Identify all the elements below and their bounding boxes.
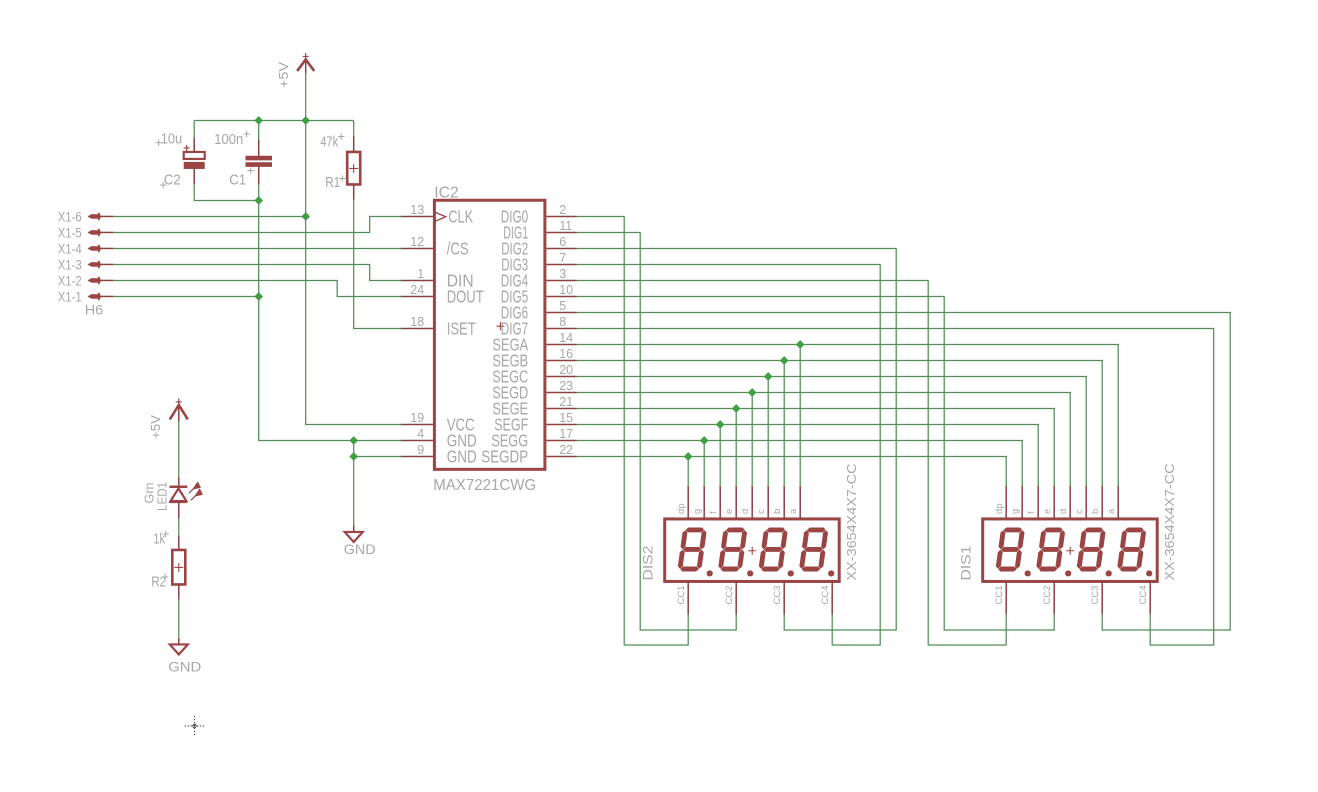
svg-text:CC3: CC3 <box>772 585 783 604</box>
wire SEGD horizontal to DIS1 pin <box>577 392 1071 486</box>
IC2 pin 9 GND (left) <box>401 443 477 467</box>
svg-text:X1-4: X1-4 <box>58 240 82 256</box>
R1 name label <box>325 175 345 191</box>
IC2 origin cross <box>497 322 505 330</box>
wire SEGA horizontal to DIS1 pin <box>577 344 1119 486</box>
IC2 pin 10 DIG5 (right) <box>501 283 577 307</box>
resistor R2 (1k) <box>172 535 185 599</box>
svg-text:X1-3: X1-3 <box>58 256 82 272</box>
svg-text:g: g <box>692 509 703 514</box>
svg-text:+5V: +5V <box>148 415 163 439</box>
connector pin X1-2 <box>58 272 114 288</box>
DIS1 pin b (top) <box>1090 486 1102 520</box>
svg-text:X1-2: X1-2 <box>58 272 82 288</box>
IC2 pin 24 DOUT (left) <box>401 283 484 307</box>
connector pin X1-4 <box>58 240 114 256</box>
svg-text:13: 13 <box>410 203 424 217</box>
ground symbol GND (LED branch) <box>170 638 188 655</box>
IC2 pin 8 DIG7 (right) <box>501 315 577 339</box>
wire R1 top lead <box>353 120 355 136</box>
DIS2 pin d (top) <box>740 486 752 520</box>
junction GND pin4 wire / GND stem <box>350 437 358 445</box>
wire GND vertical x258 down to GND pin 4 <box>259 166 401 440</box>
svg-text:CC4: CC4 <box>820 585 831 604</box>
svg-text:CC4: CC4 <box>1138 585 1149 604</box>
IC2 pin 12 /CS (left) <box>401 235 469 259</box>
wire SEGG horizontal to DIS1 pin <box>577 440 1023 486</box>
svg-text:H6: H6 <box>85 301 104 317</box>
DIS1 pin CC3 (bottom) <box>1090 581 1102 615</box>
wire X1-1 to GND vertical <box>114 295 259 297</box>
wire GND pin 9 stub <box>354 455 401 457</box>
svg-text:f: f <box>708 511 719 514</box>
wire GND: C2 bottom to C1 bottom <box>194 184 259 201</box>
svg-text:CC2: CC2 <box>1042 585 1053 604</box>
svg-text:2: 2 <box>559 203 566 217</box>
ground symbol GND (below IC) <box>345 525 363 542</box>
DIS2 pin CC1 (bottom) <box>676 581 688 615</box>
7-segment display DIS1 (XX-3654X4X7-CC) box <box>983 519 1157 582</box>
junction SEGE tee at x736 <box>732 405 740 413</box>
wire SEGC branch down to DIS2 pin <box>767 376 769 486</box>
junction +5V rail / vertical <box>302 117 310 125</box>
junction SEGDP tee at x688 <box>684 453 692 461</box>
DIS1 pin a (top) <box>1106 486 1118 520</box>
capacitor C2 (10u polarized) <box>184 137 205 184</box>
DIS1 pin e (top) <box>1042 486 1054 520</box>
LED LED1 (Grn) <box>169 477 202 518</box>
svg-text:10u: 10u <box>161 131 183 147</box>
svg-text:21: 21 <box>559 395 573 409</box>
junction SEGC tee at x768 <box>764 373 772 381</box>
junction SEGA tee at x800 <box>796 341 804 349</box>
IC2 pin 4 GND (left) <box>401 427 477 451</box>
+5V supply symbol P+1 (top) <box>297 59 314 70</box>
wire X1-5 to CLK pin 13 <box>114 216 401 232</box>
svg-text:CC1: CC1 <box>676 585 687 604</box>
svg-text:X1-5: X1-5 <box>58 224 82 240</box>
svg-text:7: 7 <box>559 251 566 265</box>
svg-text:6: 6 <box>559 235 566 249</box>
wire X1-2 to DOUT pin 24 <box>114 280 401 296</box>
svg-text:GND: GND <box>447 447 477 467</box>
IC2 pin 19 VCC (left) <box>401 411 475 435</box>
svg-text:9: 9 <box>417 443 424 457</box>
wire C2 top lead <box>193 120 195 137</box>
svg-text:Grn: Grn <box>143 482 157 503</box>
DIS1 pin c (top) <box>1074 486 1086 520</box>
svg-text:14: 14 <box>559 331 573 345</box>
wire SEGB branch down to DIS2 pin <box>783 360 785 486</box>
svg-text:+5V: +5V <box>276 62 291 88</box>
DIS2 pin a (top) <box>788 486 800 520</box>
svg-text:8: 8 <box>559 315 566 329</box>
wire SEGDP horizontal to DIS1 pin <box>577 456 1007 486</box>
wire GND stem to GND symbol <box>353 440 355 531</box>
C1 name label <box>229 167 254 188</box>
DIS1 pin CC4 (bottom) <box>1138 581 1150 615</box>
C2 name label <box>160 172 181 188</box>
C2 value label 10u <box>156 131 183 147</box>
svg-text:17: 17 <box>559 427 573 441</box>
wire DIG3 to DIS2 CC4 <box>577 264 881 645</box>
svg-text:R1: R1 <box>325 175 340 191</box>
IC2 pin 23 SEGD (right) <box>492 379 576 403</box>
IC2 pin 16 SEGB (right) <box>492 347 576 371</box>
+5V supply symbol P+2 (LED branch) <box>170 405 188 420</box>
DIS2 pin CC4 (bottom) <box>820 581 832 615</box>
svg-text:SEGDP: SEGDP <box>481 447 528 467</box>
wire R2 to GND symbol <box>178 599 180 638</box>
junction GND vertical / X1-1 wire <box>255 293 263 301</box>
svg-text:GND: GND <box>168 659 201 674</box>
DIS1 pin g (top) <box>1010 486 1022 520</box>
svg-text:C1: C1 <box>229 172 246 188</box>
connector pin X1-1 <box>58 288 114 304</box>
svg-text:3: 3 <box>559 267 566 281</box>
svg-text:IC2: IC2 <box>434 184 459 201</box>
DIS2 pin e (top) <box>724 486 736 520</box>
wire DIG0 to DIS2 CC1 <box>577 216 689 645</box>
svg-text:dp: dp <box>994 503 1005 514</box>
wire X1-4 to /CS pin 12 <box>114 247 401 249</box>
DIS1 pin d (top) <box>1058 486 1070 520</box>
svg-text:23: 23 <box>559 379 573 393</box>
DIS2 pin g (top) <box>692 486 704 520</box>
wire +5V net: vertical x305 down to VCC pin 19 <box>306 72 401 424</box>
svg-text:b: b <box>1090 509 1101 514</box>
svg-text:d: d <box>740 509 751 514</box>
wire LED1 cathode to R2 <box>178 518 180 535</box>
IC2 pin 3 DIG4 (right) <box>501 267 577 291</box>
svg-text:19: 19 <box>410 411 424 425</box>
wire DIG1 to DIS2 CC2 <box>577 232 737 630</box>
svg-text:GND: GND <box>344 542 376 557</box>
IC2 pin 14 SEGA (right) <box>492 331 576 355</box>
svg-text:CC1: CC1 <box>994 585 1005 604</box>
svg-text:dp: dp <box>676 503 687 514</box>
svg-text:c: c <box>756 509 767 514</box>
IC2 pin 11 DIG1 (right) <box>503 219 576 243</box>
DIS2 pin CC3 (bottom) <box>772 581 784 615</box>
DIS1 pin f (top) <box>1026 486 1038 520</box>
wire SEGF horizontal to DIS1 pin <box>577 424 1039 486</box>
svg-text:LED1: LED1 <box>156 482 170 511</box>
IC2 pin 13 CLK (left) <box>401 203 473 227</box>
junction C1 bottom / GND <box>255 197 263 205</box>
wire SEGE branch down to DIS2 pin <box>735 408 737 486</box>
svg-text:DIS2: DIS2 <box>640 545 656 580</box>
svg-text:100n: 100n <box>214 132 243 148</box>
svg-text:X1-6: X1-6 <box>58 208 82 224</box>
svg-text:C2: C2 <box>164 172 181 188</box>
svg-text:16: 16 <box>559 347 573 361</box>
wire SEGE horizontal to DIS1 pin <box>577 408 1055 486</box>
wire +5V to LED1 anode <box>178 421 180 478</box>
IC2 pin 20 SEGC (right) <box>492 363 576 387</box>
R2 name label <box>151 574 168 591</box>
svg-text:d: d <box>1058 509 1069 514</box>
svg-text:c: c <box>1074 509 1085 514</box>
R1 value label 47k <box>320 133 344 150</box>
resistor R1 (47k) <box>347 136 360 199</box>
IC2 pin 17 SEGG (right) <box>491 427 576 451</box>
svg-text:g: g <box>1010 509 1021 514</box>
svg-text:24: 24 <box>410 283 424 297</box>
wire DIG6 to DIS1 CC3 <box>577 312 1231 630</box>
DIS1 pin dp (top) <box>994 486 1006 520</box>
capacitor C1 (100n) <box>246 139 273 184</box>
svg-text:XX-3654X4X7-CC: XX-3654X4X7-CC <box>1162 463 1177 580</box>
IC2 pin 1 DIN (left) <box>401 267 474 291</box>
junction +5V vertical / X1-6 wire <box>302 213 310 221</box>
wire SEGC horizontal to DIS1 pin <box>577 376 1087 486</box>
wire SEGF branch down to DIS2 pin <box>719 424 721 486</box>
IC2 pin 15 SEGF (right) <box>494 411 576 435</box>
DIS2 pin f (top) <box>708 486 720 520</box>
svg-text:a: a <box>788 508 799 514</box>
junction SEGF tee at x720 <box>716 421 724 429</box>
IC2 pin 21 SEGE (right) <box>492 395 576 419</box>
DIS2 digits 8.8.8.8 <box>677 527 834 576</box>
DIS2 pin c (top) <box>756 486 768 520</box>
connector pin X1-3 <box>58 256 114 272</box>
svg-text:e: e <box>1042 509 1053 514</box>
IC2 pin 22 SEGDP (right) <box>481 443 576 467</box>
svg-text:15: 15 <box>559 411 573 425</box>
svg-text:4: 4 <box>417 427 424 441</box>
svg-text:1: 1 <box>417 267 424 281</box>
DIS1 pin CC2 (bottom) <box>1042 581 1054 615</box>
junction SEGG tee at x704 <box>700 437 708 445</box>
wire SEGD branch down to DIS2 pin <box>751 392 753 486</box>
IC2 pin 6 DIG2 (right) <box>501 235 576 259</box>
svg-text:22: 22 <box>559 443 573 457</box>
wire DIG5 to DIS1 CC2 <box>577 296 1055 630</box>
wire SEGA branch down to DIS2 pin <box>799 344 801 486</box>
wire X1-3 to DIN pin 1 <box>114 264 401 280</box>
svg-text:47k: 47k <box>320 134 339 150</box>
IC2 pin 2 DIG0 (right) <box>501 203 577 227</box>
IC2 pin 5 DIG6 (right) <box>501 299 577 323</box>
svg-text:ISET: ISET <box>447 319 476 339</box>
svg-text:5: 5 <box>559 299 566 313</box>
svg-text:DIS1: DIS1 <box>958 545 974 580</box>
svg-text:DOUT: DOUT <box>447 287 484 307</box>
DIS1 digits 8.8.8.8 <box>995 527 1152 576</box>
svg-text:f: f <box>1026 511 1037 514</box>
svg-text:10: 10 <box>559 283 573 297</box>
svg-text:12: 12 <box>410 235 424 249</box>
svg-text:11: 11 <box>559 219 572 233</box>
wire SEGDP branch down to DIS2 pin <box>687 456 689 486</box>
svg-text:CC2: CC2 <box>724 585 735 604</box>
R2 value label 1k <box>153 531 169 548</box>
DIS2 pin b (top) <box>772 486 784 520</box>
svg-text:b: b <box>772 509 783 514</box>
wire X1-6 to +5V junction <box>114 215 306 217</box>
svg-text:20: 20 <box>559 363 573 377</box>
wire DIG7 to DIS1 CC4 <box>577 328 1214 645</box>
DIS1 pin CC1 (bottom) <box>994 581 1006 615</box>
junction C1 top / +5V rail <box>255 117 263 125</box>
wire SEGG branch down to DIS2 pin <box>703 440 705 486</box>
DIS2 pin CC2 (bottom) <box>724 581 736 615</box>
junction SEGB tee at x784 <box>780 357 788 365</box>
svg-text:18: 18 <box>410 315 424 329</box>
IC U IC2 MAX7221CWG box <box>434 200 545 469</box>
svg-text:MAX7221CWG: MAX7221CWG <box>433 477 536 494</box>
IC2 pin 7 DIG3 (right) <box>501 251 576 275</box>
wire +5V top rail y120 C2-C1-R1 <box>194 119 354 121</box>
junction SEGD tee at x752 <box>748 389 756 397</box>
DIS2 pin dp (top) <box>676 486 688 520</box>
IC2 pin 18 ISET (left) <box>401 315 476 339</box>
7-segment display DIS2 (XX-3654X4X7-CC) box <box>665 519 840 582</box>
connector pin X1-5 <box>58 224 114 240</box>
wire C1 top lead <box>258 120 260 139</box>
wire SEGB horizontal to DIS1 pin <box>577 360 1103 486</box>
svg-text:a: a <box>1106 508 1117 514</box>
wire DIG4 to DIS1 CC1 <box>577 280 1007 645</box>
svg-text:CC3: CC3 <box>1090 585 1101 604</box>
C1 value label 100n <box>214 131 250 148</box>
svg-text:X1-1: X1-1 <box>58 288 82 304</box>
svg-text:CLK: CLK <box>448 207 473 227</box>
connector pin X1-6 <box>58 208 114 224</box>
junction GND pin9 wire / GND stem <box>350 453 358 461</box>
wire R1 bottom to ISET pin 18 <box>354 199 401 328</box>
svg-text:e: e <box>724 509 735 514</box>
wire DIG2 to DIS2 CC3 <box>577 248 897 630</box>
sheet origin dashed cross <box>185 716 205 736</box>
svg-text:XX-3654X4X7-CC: XX-3654X4X7-CC <box>844 463 859 580</box>
svg-text:/CS: /CS <box>447 239 469 259</box>
